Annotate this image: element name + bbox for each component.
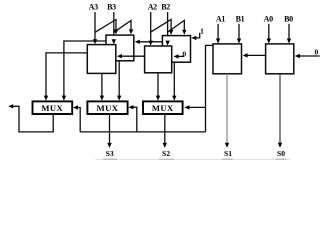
svg-text:0: 0 [315, 48, 319, 57]
svg-text:S2: S2 [162, 149, 170, 158]
svg-text:B1: B1 [236, 15, 245, 24]
svg-text:A1: A1 [216, 15, 225, 24]
svg-text:A3: A3 [89, 3, 98, 12]
svg-text:A2: A2 [148, 3, 157, 12]
svg-text:MUX: MUX [152, 103, 174, 113]
svg-text:B3: B3 [107, 3, 116, 12]
svg-text:S0: S0 [277, 149, 285, 158]
svg-text:0: 0 [182, 49, 186, 58]
svg-text:1: 1 [200, 27, 204, 36]
svg-text:MUX: MUX [97, 103, 119, 113]
svg-text:A0: A0 [264, 15, 273, 24]
svg-text:B2: B2 [161, 3, 170, 12]
svg-text:S1: S1 [224, 149, 232, 158]
svg-text:S3: S3 [106, 149, 114, 158]
svg-text:B0: B0 [284, 15, 293, 24]
svg-text:MUX: MUX [41, 103, 63, 113]
